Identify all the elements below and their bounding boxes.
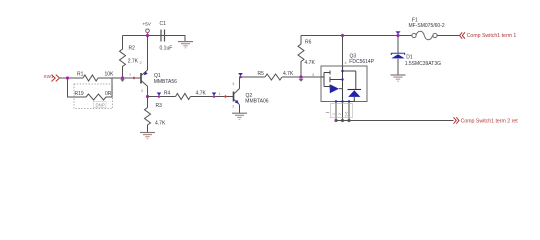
svg-text:Comp Switch1 term 1: Comp Switch1 term 1: [467, 33, 517, 39]
ground (R3): [140, 133, 155, 139]
node Q3 source junction: [341, 34, 344, 37]
svg-text:MMBTA06: MMBTA06: [245, 98, 268, 104]
wire R1 to base node: [98, 77, 141, 79]
svg-text:4.7K: 4.7K: [155, 121, 166, 127]
off-page connector Comp Switch1 term 1: [460, 32, 517, 39]
power symbol +5V: [143, 22, 152, 36]
wire R4 to Q2 base: [191, 96, 234, 98]
ground (D1): [391, 75, 406, 81]
wire collector node to R4: [148, 96, 176, 98]
svg-text:3: 3: [141, 89, 143, 93]
wire Q1 emitter to +5V: [147, 36, 149, 71]
wire R5 to Q3 gate: [282, 76, 321, 78]
resistor R19 (DNP): [75, 91, 112, 100]
wire Q2 collector to R5: [240, 76, 266, 78]
wire Q1 collector to node: [147, 86, 149, 96]
net marker (R4 left): [157, 93, 162, 98]
wire D1 lead: [397, 36, 399, 54]
transistor Q3 FDC5614P: [321, 53, 375, 102]
svg-text:2: 2: [338, 113, 342, 115]
svg-text:0R: 0R: [105, 91, 112, 97]
wire R19 right riser: [106, 78, 112, 97]
svg-text:1: 1: [332, 113, 336, 115]
DNP label: [94, 102, 106, 108]
svg-text:2.7K: 2.7K: [128, 58, 139, 64]
svg-text:MMBTA56: MMBTA56: [154, 79, 177, 85]
interior mosfet: [342, 66, 344, 89]
wire Q3 top pin: [342, 36, 344, 67]
net marker (Q2 collector): [238, 73, 243, 78]
wire F1 to connector: [437, 35, 459, 37]
pin lines Q3 bottom: [336, 102, 349, 121]
resistor R1: [77, 72, 114, 82]
body diode: [343, 70, 356, 72]
svg-text:4.7K: 4.7K: [196, 91, 207, 97]
node SW1 junction: [66, 76, 69, 79]
ground (Q2): [232, 113, 247, 119]
wire SW1 to R1: [60, 77, 83, 79]
node +5V junction: [146, 34, 149, 37]
svg-text:Comp Switch1 term 2 ret: Comp Switch1 term 2 ret: [461, 118, 519, 124]
svg-text:1.5SMC39AT3G: 1.5SMC39AT3G: [405, 61, 441, 67]
pin numbers Q3 bottom: [326, 104, 353, 118]
net marker (R6 node): [298, 79, 303, 82]
pin marker Q1 base: [132, 76, 135, 79]
wire top rail right: [301, 35, 412, 37]
fuse F1 MF-SM075/60-2: [409, 17, 445, 39]
net marker (R4 right): [212, 93, 217, 98]
svg-text:C1: C1: [160, 21, 167, 27]
diode D1 1.5SMC39AT3G: [391, 53, 441, 67]
transistor Q2 MMBTA06: [234, 89, 269, 105]
svg-text:FDC5614P: FDC5614P: [349, 59, 374, 65]
svg-text:1: 1: [129, 72, 131, 76]
off-page connector SW1: [44, 74, 60, 81]
svg-text:3: 3: [312, 73, 314, 77]
off-page connector Comp Switch1 term 2 ret: [454, 117, 519, 124]
svg-text:1: 1: [219, 92, 221, 96]
resistor R4: [164, 91, 207, 100]
node R6 junction: [299, 75, 302, 78]
svg-text:MF-SM075/60-2: MF-SM075/60-2: [409, 23, 445, 29]
wire Q2 emitter to ground: [239, 105, 241, 113]
resistor R3: [145, 97, 166, 133]
svg-text:5-6: 5-6: [345, 111, 349, 116]
net marker (D1 node): [395, 31, 400, 34]
svg-text:R1: R1: [77, 72, 84, 78]
svg-text:2: 2: [232, 105, 234, 109]
ground (C1): [178, 42, 193, 48]
resistor R6: [298, 36, 315, 78]
svg-text:R5: R5: [258, 71, 265, 77]
svg-text:2: 2: [140, 61, 142, 65]
node D1 junction: [396, 34, 399, 37]
wire +5V rail left: [123, 35, 186, 37]
svg-text:R6: R6: [305, 40, 312, 46]
svg-text:D1: D1: [406, 55, 413, 61]
svg-text:4: 4: [345, 61, 347, 65]
svg-text:10K: 10K: [105, 72, 115, 78]
pin marker Q2 base: [224, 95, 227, 98]
capacitor C1: [160, 21, 173, 52]
resistor R5: [258, 71, 294, 80]
node Q1 base junction: [121, 76, 124, 79]
transistor Q1 MMBTA56: [141, 70, 177, 86]
wire D1 to ground: [397, 59, 399, 75]
svg-text:3: 3: [232, 82, 234, 86]
node bus junctions: [334, 119, 350, 122]
svg-text:R2: R2: [129, 45, 136, 51]
svg-text:4.7K: 4.7K: [283, 71, 294, 77]
svg-text:4.7K: 4.7K: [305, 60, 316, 66]
net marker (base node): [120, 79, 125, 82]
svg-text:R3: R3: [156, 103, 163, 109]
wire bottom bus: [336, 120, 454, 122]
svg-text:0.1uF: 0.1uF: [160, 46, 173, 52]
node collector junction: [146, 95, 149, 98]
svg-text:R4: R4: [164, 91, 171, 97]
svg-text:DNP: DNP: [96, 103, 105, 108]
dashed box (DNP outline): [74, 84, 113, 109]
wire C1 to ground: [166, 36, 185, 42]
resistor R2: [120, 36, 139, 79]
svg-text:R19: R19: [75, 91, 84, 97]
wire R19 left riser: [68, 78, 87, 97]
wire Q2 collector riser: [239, 77, 241, 89]
svg-text:+5V: +5V: [143, 22, 152, 27]
